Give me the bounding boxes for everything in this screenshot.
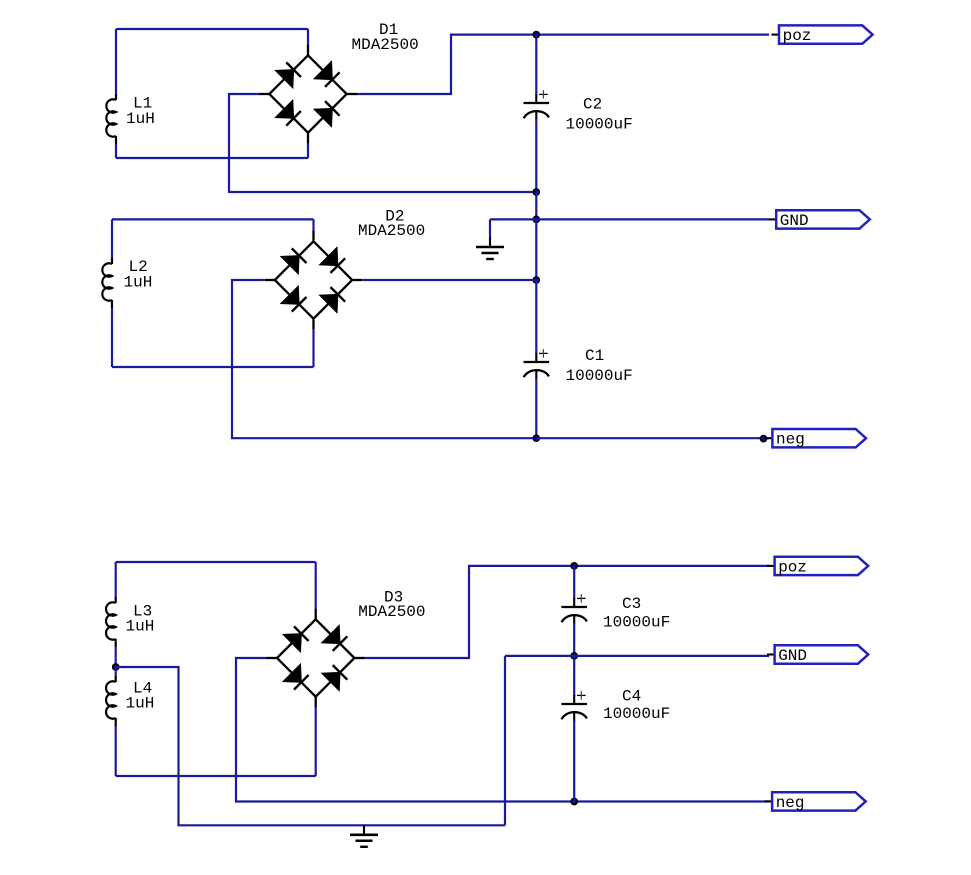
wire GND row section 3: [505, 655, 769, 657]
wire center tap to ground run: [116, 667, 505, 825]
wire D1 bottom pin: [307, 143, 309, 158]
svg-text:C1: C1: [585, 347, 604, 365]
svg-text:MDA2500: MDA2500: [352, 36, 419, 54]
junction dot neg node section 1: [533, 435, 539, 441]
junction dot D2 positive node: [533, 277, 539, 283]
wire D2 positive corner to node: [363, 279, 536, 281]
label C1 plus: [539, 352, 548, 354]
svg-text:10000uF: 10000uF: [603, 614, 670, 632]
wire D2 top pin: [312, 219, 314, 232]
svg-text:GND: GND: [778, 647, 807, 665]
svg-text:1uH: 1uH: [126, 695, 155, 713]
wire C1 bottom to neg node: [535, 378, 537, 438]
junction dot L3-L4 center tap: [113, 664, 119, 670]
svg-text:neg: neg: [776, 794, 805, 812]
wire L4 left rail lower: [115, 726, 117, 776]
label C4 plus: [577, 694, 586, 696]
wire L3 to center tap: [115, 647, 117, 667]
wire L2 left rail upper: [111, 219, 113, 258]
svg-text:1uH: 1uH: [126, 110, 155, 128]
wire top rail section 1 (L1 top to D1 AC top): [116, 28, 308, 30]
port GND section 1: [769, 218, 777, 220]
bridge rectifier D1: [269, 55, 346, 132]
wire C4 bottom to neg node: [573, 720, 575, 802]
wire D2 bottom pin: [312, 329, 314, 367]
wire D3 bottom pin: [315, 707, 317, 776]
label C3 plus: [577, 597, 586, 599]
wire C1 top pin from D2 positive node: [535, 280, 537, 354]
wire GND riser to ground run: [504, 656, 506, 825]
wire L3 left rail upper: [115, 562, 117, 598]
junction dot poz node section 3: [571, 563, 577, 569]
wire D2 negative corner to neg rail: [232, 280, 536, 438]
svg-text:1uH: 1uH: [126, 618, 155, 636]
wire center tap to L4: [115, 667, 117, 677]
svg-text:10000uF: 10000uF: [566, 116, 633, 134]
capacitor C1: [524, 361, 550, 363]
junction dot GND node section 3: [571, 653, 577, 659]
wire L1 left rail upper: [115, 29, 117, 95]
port GND section 3: [767, 653, 775, 655]
svg-text:10000uF: 10000uF: [566, 367, 633, 385]
bridge rectifier D2: [275, 241, 352, 318]
svg-text:10000uF: 10000uF: [603, 705, 670, 723]
ground symbol section 1: [489, 237, 491, 247]
svg-text:neg: neg: [776, 431, 805, 449]
wire top rail section 2 (L2 top to D2 AC top): [112, 218, 314, 220]
wire bottom rail section 2: [112, 366, 314, 368]
bridge rectifier D3: [277, 619, 354, 696]
port neg section 1: [765, 437, 773, 439]
junction dot neg node section 3: [571, 798, 577, 804]
wire L2 left rail lower: [111, 308, 113, 367]
port poz section 3: [767, 565, 775, 567]
wire neg rail section 3: [574, 800, 769, 802]
svg-text:MDA2500: MDA2500: [358, 603, 425, 621]
wire ground symbol riser: [489, 219, 491, 237]
wire C3 top pin from poz node: [573, 566, 575, 599]
wire neg rail section 1: [536, 437, 769, 439]
ground symbol section 3: [363, 825, 365, 835]
svg-text:C3: C3: [622, 595, 641, 613]
svg-text:MDA2500: MDA2500: [358, 222, 425, 240]
svg-text:poz: poz: [783, 27, 812, 45]
inductor L2: [111, 258, 113, 264]
inductor L3: [115, 597, 117, 603]
wire poz rail section 3: [574, 565, 769, 567]
junction dot GND node section 1: [533, 216, 539, 222]
wire bottom rail section 3: [116, 775, 316, 777]
wire C3 bottom to GND node: [573, 623, 575, 656]
wire poz rail section 1: [536, 33, 769, 35]
wire bottom rail section 1: [116, 157, 308, 159]
wire L1 left rail lower: [115, 144, 117, 158]
svg-text:poz: poz: [778, 558, 807, 576]
wire GND node to D2 positive row: [535, 219, 537, 280]
svg-text:C4: C4: [622, 688, 641, 706]
junction dot C2-bottom / D1 negative node: [533, 189, 539, 195]
wire mid node down to GND row: [535, 192, 537, 219]
wire C2 top pin from poz node: [535, 35, 537, 95]
svg-text:GND: GND: [780, 212, 809, 230]
wire D3 top pin: [315, 562, 317, 610]
wire GND row section 1: [490, 218, 769, 220]
port poz section 1: [772, 34, 780, 36]
wire D1 top pin: [307, 29, 309, 46]
junction dot poz node: [533, 31, 539, 37]
wire C2 bottom to mid node: [535, 119, 537, 192]
inductor L4: [115, 676, 117, 682]
wire top rail section 3 (L3 top to D3 AC top): [116, 561, 316, 563]
capacitor C2: [524, 102, 550, 104]
wire C4 top pin from GND node: [573, 656, 575, 696]
svg-text:1uH: 1uH: [124, 274, 153, 292]
wire D1 negative corner to node (229,192): [229, 94, 536, 192]
port neg section 3: [765, 800, 773, 802]
wire D1 positive corner to poz rail: [357, 35, 536, 94]
wire D3 negative corner to neg rail: [236, 658, 574, 802]
wire D3 positive corner to poz rail: [365, 566, 574, 658]
capacitor C4: [561, 703, 587, 705]
label C2 plus: [539, 93, 548, 95]
capacitor C3: [561, 606, 587, 608]
junction dot at neg port section 1: [760, 436, 766, 442]
svg-text:C2: C2: [583, 96, 602, 114]
inductor L1: [115, 94, 117, 100]
